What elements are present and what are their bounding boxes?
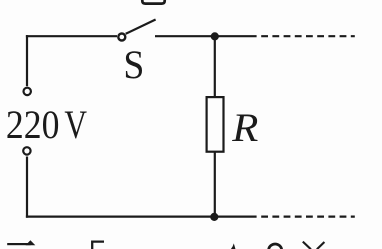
cropped glyph bottom-right: top arch of digit [269,244,282,249]
switch S lever arm [126,20,156,34]
svg-text:S: S [123,43,144,87]
cropped glyph bottom-right: top of multiplication sign [303,242,325,249]
wire bottom horizontal [26,216,257,218]
wire top-right horizontal [155,35,257,37]
wire top-left horizontal [26,35,117,37]
terminal circle bottom (220 V source -) [23,147,30,154]
svg-text:220: 220 [6,103,60,147]
cropped glyph bottom: corner bracket [92,242,104,249]
cropped glyph bottom-left: right arrow [7,240,35,245]
dashed wire top [261,35,355,37]
cropped glyph top (bottom of character above figure) [142,0,164,4]
wire left vertical upper [26,35,28,86]
wire left vertical lower [26,157,28,218]
terminal circle top (220 V source +) [24,88,31,95]
wire right vertical upper [214,36,216,97]
svg-text:R: R [231,106,258,151]
svg-text:V: V [64,102,87,147]
node junction top [211,32,219,40]
node junction bottom [210,213,218,221]
cropped glyph bottom-right: apex of letter A [231,243,236,249]
resistor R body [207,97,224,152]
dashed wire bottom [261,216,355,218]
wire right vertical lower [214,152,216,217]
switch S contact circle [118,34,125,41]
